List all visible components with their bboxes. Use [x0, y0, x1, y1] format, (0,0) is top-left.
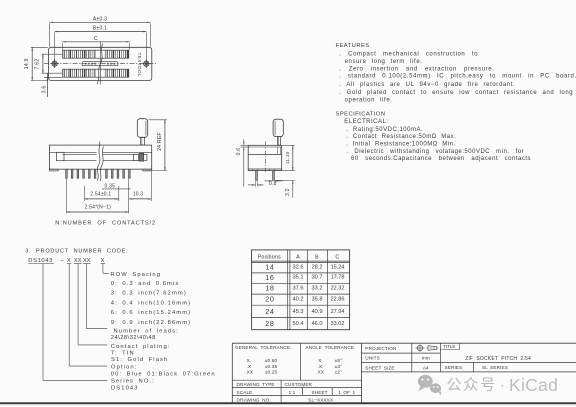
svg-text:00: Blue 01:Black 07:Green: 00: Blue 01:Black 07:Green — [111, 371, 216, 377]
svg-text:X.: X. — [247, 358, 252, 364]
svg-text:ZIF SOCKET PITCH 2.54: ZIF SOCKET PITCH 2.54 — [465, 356, 531, 362]
svg-text:17.78: 17.78 — [331, 275, 345, 281]
svg-text:·: · — [500, 377, 505, 393]
svg-text:mm: mm — [422, 356, 430, 361]
svg-text:27.94: 27.94 — [331, 309, 345, 315]
svg-text:A±0.3: A±0.3 — [93, 16, 108, 22]
svg-text:.XX: .XX — [316, 370, 325, 376]
svg-text:2.54±0.1: 2.54±0.1 — [90, 192, 111, 198]
svg-text:FEATURES: FEATURES — [336, 43, 370, 49]
svg-text:ensure long term life.: ensure long term life. — [345, 59, 423, 65]
svg-text:0.6: 0.6 — [236, 148, 242, 156]
svg-text:3.2: 3.2 — [285, 188, 291, 196]
svg-text:Positions: Positions — [258, 254, 281, 260]
svg-text:UNITS: UNITS — [365, 356, 380, 361]
svg-text:33.2: 33.2 — [311, 286, 322, 292]
svg-text:33.02: 33.02 — [331, 321, 345, 327]
svg-text:SHEET SIZE: SHEET SIZE — [365, 365, 394, 370]
svg-text:60 seconds.Capacitance between: 60 seconds.Capacitance between adjacent … — [351, 156, 531, 162]
svg-text:.X: .X — [318, 364, 323, 370]
svg-text:3.6: 3.6 — [41, 86, 47, 94]
svg-text:DS1043: DS1043 — [28, 258, 53, 264]
svg-text:X: X — [67, 258, 71, 264]
svg-text:PROJECTION: PROJECTION — [365, 346, 396, 351]
svg-text:.X: .X — [247, 364, 252, 370]
svg-text:X: X — [101, 258, 105, 264]
svg-text:. All plastics are UL 94v−0 gr: . All plastics are UL 94v−0 grade fire r… — [339, 82, 515, 88]
svg-text:Number of leads:: Number of leads: — [114, 328, 179, 334]
svg-text:0.8: 0.8 — [269, 181, 277, 187]
svg-text:DS1043: DS1043 — [111, 386, 139, 392]
svg-text:GENERAL TOLERANCE:: GENERAL TOLERANCE: — [235, 345, 292, 350]
svg-text:KiCad: KiCad — [509, 375, 558, 395]
svg-text:C: C — [335, 254, 339, 260]
svg-text:. standard 0.100(2.54mm) IC pi: . standard 0.100(2.54mm) IC pitch,easy t… — [339, 74, 576, 80]
svg-text:ANGLE TOLERANCE: ANGLE TOLERANCE — [306, 345, 355, 350]
svg-text:±0.60: ±0.60 — [265, 358, 278, 364]
svg-text:. Initial Resistance:1000MΩ Mi: . Initial Resistance:1000MΩ Min. — [346, 142, 455, 148]
svg-text:CUSTOMER: CUSTOMER — [285, 382, 313, 387]
svg-text:7.62: 7.62 — [35, 59, 41, 70]
svg-text:30.7: 30.7 — [311, 275, 322, 281]
svg-text:SL−XXXXX: SL−XXXXX — [308, 398, 334, 403]
svg-text:3: 0.3 inch(7.62mm): 3: 0.3 inch(7.62mm) — [111, 291, 187, 297]
svg-text:. Zero insertion and extractio: . Zero insertion and extraction pressure… — [339, 66, 494, 72]
svg-text:operation life.: operation life. — [345, 98, 393, 104]
svg-text:XX: XX — [83, 258, 91, 264]
svg-text:Contact plating:: Contact plating: — [111, 344, 171, 350]
svg-text:46.0: 46.0 — [311, 321, 322, 327]
svg-text:0: 0.3 and 0.6mix: 0: 0.3 and 0.6mix — [111, 281, 180, 287]
svg-text:SPECIFICATION: SPECIFICATION — [336, 111, 386, 117]
svg-text:1 OF 1: 1 OF 1 — [338, 390, 355, 395]
svg-text:Option:: Option: — [111, 365, 137, 371]
svg-text:DRAWING TYPE: DRAWING TYPE — [237, 382, 275, 387]
svg-text:40.9: 40.9 — [311, 309, 322, 315]
svg-text:14: 14 — [265, 262, 274, 271]
svg-text:6: 0.6 inch(15.24mm): 6: 0.6 inch(15.24mm) — [111, 310, 191, 316]
svg-text:50.4: 50.4 — [292, 321, 303, 327]
svg-text:20: 20 — [265, 295, 274, 304]
svg-text:24 REF: 24 REF — [157, 132, 163, 151]
svg-text:37.6: 37.6 — [292, 286, 303, 292]
svg-text:±3°: ±3° — [335, 364, 343, 370]
svg-text:22.86: 22.86 — [331, 297, 345, 303]
svg-text:40.2: 40.2 — [292, 297, 303, 303]
svg-text:22.32: 22.32 — [331, 286, 345, 292]
svg-text:16: 16 — [265, 273, 274, 282]
svg-text:XX: XX — [74, 258, 82, 264]
svg-text:B±0.1: B±0.1 — [93, 26, 108, 32]
svg-text:35.1: 35.1 — [292, 275, 303, 281]
svg-text:2.54*(N−1): 2.54*(N−1) — [85, 205, 111, 211]
svg-text:B: B — [315, 254, 319, 260]
svg-text:±0.25: ±0.25 — [265, 370, 278, 376]
svg-text:. Rating:50VDC,100mA.: . Rating:50VDC,100mA. — [346, 127, 423, 133]
svg-text:24\28\32\40\48: 24\28\32\40\48 — [111, 335, 156, 341]
svg-text:24: 24 — [265, 307, 274, 316]
svg-text:ROW Spacing: ROW Spacing — [110, 272, 161, 278]
svg-text:−: − — [60, 258, 64, 264]
svg-text:0.35: 0.35 — [105, 183, 116, 189]
svg-text:±2°: ±2° — [335, 370, 343, 376]
svg-text:28: 28 — [265, 319, 274, 328]
svg-text:.XX: .XX — [245, 370, 254, 376]
svg-text:9: 0.9 inch(22.86mm): 9: 0.9 inch(22.86mm) — [111, 320, 191, 326]
svg-text:14.9: 14.9 — [24, 58, 30, 69]
svg-text:35.8: 35.8 — [311, 297, 322, 303]
svg-text:. Gold plated contact to ensur: . Gold plated contact to ensure low cont… — [339, 90, 573, 96]
svg-text:±0.38: ±0.38 — [265, 364, 278, 370]
svg-text:28.2: 28.2 — [311, 264, 322, 270]
svg-text:TITLE: TITLE — [443, 344, 455, 349]
svg-text:SERIES: SERIES — [445, 365, 463, 370]
svg-text:11.10: 11.10 — [285, 151, 291, 164]
svg-text:公众号: 公众号 — [447, 377, 497, 394]
svg-text:Series NO.:: Series NO.: — [111, 379, 155, 385]
svg-text:N:NUMBER OF CONTACTS/2: N:NUMBER OF CONTACTS/2 — [55, 220, 156, 226]
svg-text:SL SERIES: SL SERIES — [482, 365, 508, 370]
svg-text:32.6: 32.6 — [292, 264, 303, 270]
svg-text:4: 0.4 inch(10.16mm): 4: 0.4 inch(10.16mm) — [111, 300, 191, 306]
svg-text:A4: A4 — [423, 365, 429, 370]
svg-text:. Compact mechanical construct: . Compact mechanical construction to — [339, 51, 478, 57]
svg-text:DRAWING NO.: DRAWING NO. — [237, 398, 271, 403]
svg-text:18: 18 — [265, 284, 274, 293]
svg-text:3. PRODUCT NUMBER CODE:: 3. PRODUCT NUMBER CODE: — [25, 249, 128, 255]
svg-text:C: C — [94, 36, 98, 42]
svg-text:45.3: 45.3 — [292, 309, 303, 315]
svg-text:T: TIN: T: TIN — [111, 350, 135, 356]
svg-text:ELECTRICAL:: ELECTRICAL: — [344, 119, 388, 125]
svg-text:1:1: 1:1 — [288, 390, 295, 395]
svg-text:S1: Gold Flash: S1: Gold Flash — [111, 357, 168, 363]
svg-text:15.24: 15.24 — [331, 264, 345, 270]
svg-text:A: A — [296, 254, 300, 260]
svg-text:. Dielectric withstanding vola: . Dielectric withstanding volatage:500VD… — [346, 149, 524, 155]
svg-text:±5°: ±5° — [335, 358, 343, 364]
svg-text:TEXTOOL: TEXTOOL — [137, 53, 142, 78]
svg-text:. Contact Resistance:50mΩ Max.: . Contact Resistance:50mΩ Max. — [346, 134, 456, 140]
svg-text:10.3: 10.3 — [133, 192, 144, 198]
svg-text:SCALE: SCALE — [237, 390, 253, 395]
svg-text:SHEET: SHEET — [312, 390, 328, 395]
